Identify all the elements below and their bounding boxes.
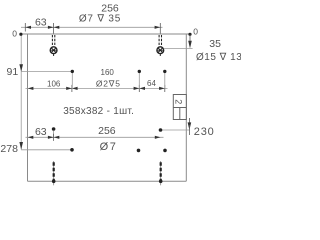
svg-text:Ø15 ∇ 13: Ø15 ∇ 13 [196,52,241,63]
svg-text:Ø7 ∇ 35: Ø7 ∇ 35 [79,14,121,25]
svg-text:63: 63 [35,16,47,28]
svg-text:278: 278 [0,143,18,155]
svg-text:2: 2 [174,99,184,104]
svg-text:256: 256 [98,125,116,137]
svg-text:35: 35 [209,38,221,50]
svg-text:63: 63 [35,126,47,138]
svg-text:0: 0 [193,26,198,36]
svg-text:Ø2∇5: Ø2∇5 [96,79,121,89]
svg-text:230: 230 [194,126,215,138]
svg-text:160: 160 [101,68,115,77]
svg-text:106: 106 [47,79,61,88]
svg-text:358x382 - 1шт.: 358x382 - 1шт. [63,106,134,117]
svg-text:Ø7: Ø7 [100,141,118,153]
svg-text:91: 91 [7,66,19,78]
svg-text:0: 0 [12,29,17,39]
svg-text:64: 64 [147,79,156,88]
